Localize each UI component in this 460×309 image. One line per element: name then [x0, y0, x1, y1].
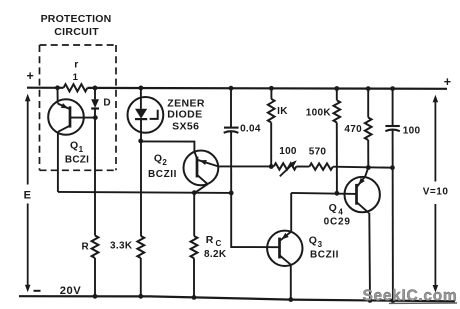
Q3 collector lead to bottom rail	[290, 265, 292, 300]
svg-text:C: C	[216, 239, 222, 248]
wire: 3.3K to bottom rail	[140, 258, 142, 297]
junction: resistor 3.3K / bottom rail	[138, 294, 143, 299]
wire: Rc to bottom rail	[193, 258, 195, 297]
transistor Q1 circle	[48, 99, 84, 135]
Q1 emitter diagonal	[58, 104, 70, 109]
wire: resistor R to bottom rail	[94, 258, 96, 297]
svg-text:Q: Q	[329, 202, 338, 214]
svg-text:BCZII: BCZII	[310, 250, 339, 261]
svg-text:3: 3	[318, 240, 323, 249]
transistor Q3 circle	[267, 231, 302, 266]
svg-text:100K: 100K	[306, 107, 332, 118]
wire: top positive supply rail (left segment)	[27, 87, 64, 89]
diode D triangle	[91, 99, 99, 108]
resistor r (series protection resistor)	[64, 84, 88, 91]
junction: resistor 470 / top rail	[366, 86, 371, 91]
wire: Q2 emitter to pot	[218, 165, 274, 167]
junction: diode D / Q1 base node	[93, 115, 98, 120]
svg-text:100: 100	[279, 146, 297, 157]
node E: input voltage arrow (down head)	[25, 285, 31, 293]
Q1 base bar	[69, 106, 72, 127]
resistor R zigzag	[92, 236, 99, 259]
wire: zener node to Q2 base	[141, 141, 197, 158]
wire: rail to 1K	[270, 88, 272, 99]
wire: 470 down to emitter wire	[367, 140, 369, 168]
svg-text:r: r	[74, 59, 79, 71]
wire: zener node down to 3.3K	[140, 141, 142, 236]
resistor 100K zigzag	[334, 100, 341, 122]
svg-text:SeekIC.com: SeekIC.com	[363, 287, 458, 304]
wire: Q1 collector to 0.04 cap bottom	[58, 192, 231, 193]
zener bent mark	[150, 110, 158, 119]
wire: Rc node down	[193, 193, 195, 236]
diode D cathode bar	[91, 107, 99, 109]
svg-text:2: 2	[162, 158, 167, 167]
resistor 1K zigzag	[268, 99, 275, 123]
junction: resistor R / bottom rail	[93, 294, 98, 299]
wire: rail to 470	[367, 89, 369, 118]
zener top lead	[140, 88, 142, 109]
svg-text:ZENER: ZENER	[167, 97, 205, 109]
svg-text:R: R	[206, 234, 214, 246]
potentiometer wiper arrow	[280, 162, 295, 176]
svg-text:570: 570	[309, 146, 327, 157]
Q4 emitter arrow	[358, 178, 364, 185]
Q1 base lead to diode node	[70, 117, 95, 119]
wire: 0.04 node down to Q3 base	[231, 193, 279, 247]
capacitor 0.04 top lead	[230, 88, 232, 127]
Q3 base bar	[278, 238, 281, 259]
Q3 emitter diagonal	[280, 232, 291, 241]
watermark SeekIC.com	[363, 287, 458, 304]
wire: E arrow shaft lower	[27, 204, 29, 287]
wire: 570 to 100 cap branch	[333, 167, 393, 168]
wire: rail to 100K	[336, 89, 338, 101]
diode D cathode lead	[94, 109, 96, 118]
junction: resistor 100K / top rail	[334, 86, 339, 91]
svg-text:D: D	[103, 97, 111, 108]
svg-text:3.3K: 3.3K	[110, 241, 133, 252]
wire: E arrow shaft upper	[27, 100, 29, 185]
svg-text:R: R	[82, 242, 90, 253]
zener diode circle	[127, 97, 163, 133]
transistor Q2 circle	[184, 151, 219, 186]
capacitor 0.04 top plate	[224, 127, 239, 129]
node E: input voltage arrow (up head)	[25, 94, 31, 102]
svg-text:Q: Q	[309, 234, 318, 246]
wire: bottom negative rail	[19, 296, 455, 301]
svg-text:1: 1	[73, 72, 79, 83]
svg-text:8.2K: 8.2K	[204, 249, 227, 260]
Q4 emitter lead up to wire	[365, 168, 368, 177]
wire: pot to 570	[296, 166, 309, 168]
wire: 100K down to Q4 base node	[336, 123, 338, 194]
junction: Q1 emitter / top rail	[55, 85, 60, 90]
junction: 100K / Q4 base wire	[335, 191, 340, 196]
resistor 3.3K zigzag	[137, 236, 144, 258]
Q2 emitter diagonal	[197, 160, 218, 167]
Q4 emitter diagonal	[357, 176, 365, 187]
transistor Q4 circle	[345, 177, 380, 212]
Q1 collector diagonal	[58, 126, 70, 132]
zener bottom lead	[140, 119, 142, 141]
svg-text:20V: 20V	[60, 285, 81, 297]
svg-text:E: E	[24, 190, 32, 202]
Q1 emitter arrow	[61, 103, 68, 108]
Q4 base bar	[355, 184, 358, 205]
svg-text:+: +	[444, 75, 452, 89]
svg-text:0.04: 0.04	[240, 124, 261, 135]
capacitor 0.04 bottom plate (curved)	[224, 131, 239, 133]
Q3 emitter arrow	[282, 233, 289, 240]
Q1 collector lead down	[57, 132, 59, 192]
svg-text:+: +	[26, 69, 34, 83]
svg-text:BCZII: BCZII	[148, 169, 177, 180]
Q2 emitter arrow	[199, 160, 207, 165]
junction: capacitor 0.04 / top rail	[229, 86, 234, 91]
svg-text:1: 1	[79, 145, 84, 154]
zener cathode bar	[135, 118, 147, 120]
wire: 1K down to pot wire	[270, 123, 272, 167]
Q1 emitter lead from rail	[57, 88, 59, 104]
junction: diode D / top rail	[93, 86, 98, 91]
junction: zener bottom node	[138, 139, 143, 144]
Q4 collector diagonal	[357, 202, 369, 213]
capacitor 0.04 bottom lead	[230, 131, 232, 193]
junction: 470 / emitter wire	[366, 165, 371, 170]
resistor 570 zigzag	[309, 163, 333, 169]
junction: 100 cap / emitter wire end	[390, 165, 395, 170]
node V: output voltage arrow (down head)	[433, 285, 439, 293]
junction: Q2 collector / Rc node	[192, 190, 197, 195]
svg-text:V=10: V=10	[423, 186, 449, 197]
svg-text:BCZI: BCZI	[65, 154, 89, 165]
wire: V arrow shaft lower	[434, 204, 436, 286]
wire: V arrow shaft upper	[434, 101, 436, 182]
Q4 collector lead to bottom rail	[368, 213, 371, 301]
capacitor 100 bottom lead to bottom rail	[392, 130, 394, 301]
svg-text:PROTECTION: PROTECTION	[41, 13, 112, 25]
protection circuit dashed boundary box	[40, 45, 117, 170]
capacitor 100 bottom plate (curved)	[385, 130, 399, 132]
svg-text:Q: Q	[154, 153, 163, 165]
junction: zener / top rail	[139, 86, 144, 91]
Q3 collector diagonal	[280, 256, 291, 265]
svg-text:100: 100	[403, 125, 421, 136]
svg-text:Q: Q	[70, 140, 79, 152]
junction: Q4 collector / bottom rail	[368, 298, 373, 303]
svg-text:CIRCUIT: CIRCUIT	[54, 26, 99, 38]
svg-text:IK: IK	[277, 106, 288, 117]
Q2 collector bend to Rc node	[195, 184, 208, 193]
zener triangle	[135, 109, 147, 119]
potentiometer 100 zigzag	[274, 163, 297, 169]
capacitor 100 top lead	[392, 89, 394, 126]
junction: 0.04 bottom / wire	[229, 191, 234, 196]
svg-text:DIODE: DIODE	[167, 109, 202, 121]
svg-text:0C29: 0C29	[324, 217, 351, 228]
wire: Q3 emitter node to Q4 base	[291, 193, 356, 194]
junction: Q3 collector / bottom rail	[288, 297, 293, 302]
junction: resistor 1K / top rail	[269, 86, 274, 91]
svg-text:4: 4	[338, 207, 343, 216]
resistor Rc zigzag	[191, 236, 198, 258]
Q2 base bar	[196, 157, 199, 178]
svg-text:SX56: SX56	[172, 121, 199, 133]
junction: resistor Rc / bottom rail	[192, 295, 197, 300]
junction: capacitor 100 / top rail	[390, 86, 395, 91]
diode D anode lead	[94, 88, 96, 99]
Q2 collector diagonal	[197, 175, 208, 184]
wire: top positive supply rail (right segment)	[87, 87, 447, 90]
Q3 emitter lead up	[290, 193, 292, 232]
junction: 1K / emitter wire	[269, 164, 274, 169]
node V: output voltage arrow (up head)	[433, 95, 439, 103]
junction: capacitor 100 / bottom rail	[391, 298, 396, 303]
capacitor 100 top plate	[385, 125, 399, 127]
wire: diode node down to resistor R	[94, 118, 96, 236]
terminal - (input negative)	[34, 290, 41, 292]
resistor 470 zigzag	[365, 118, 372, 141]
svg-text:470: 470	[344, 124, 362, 135]
